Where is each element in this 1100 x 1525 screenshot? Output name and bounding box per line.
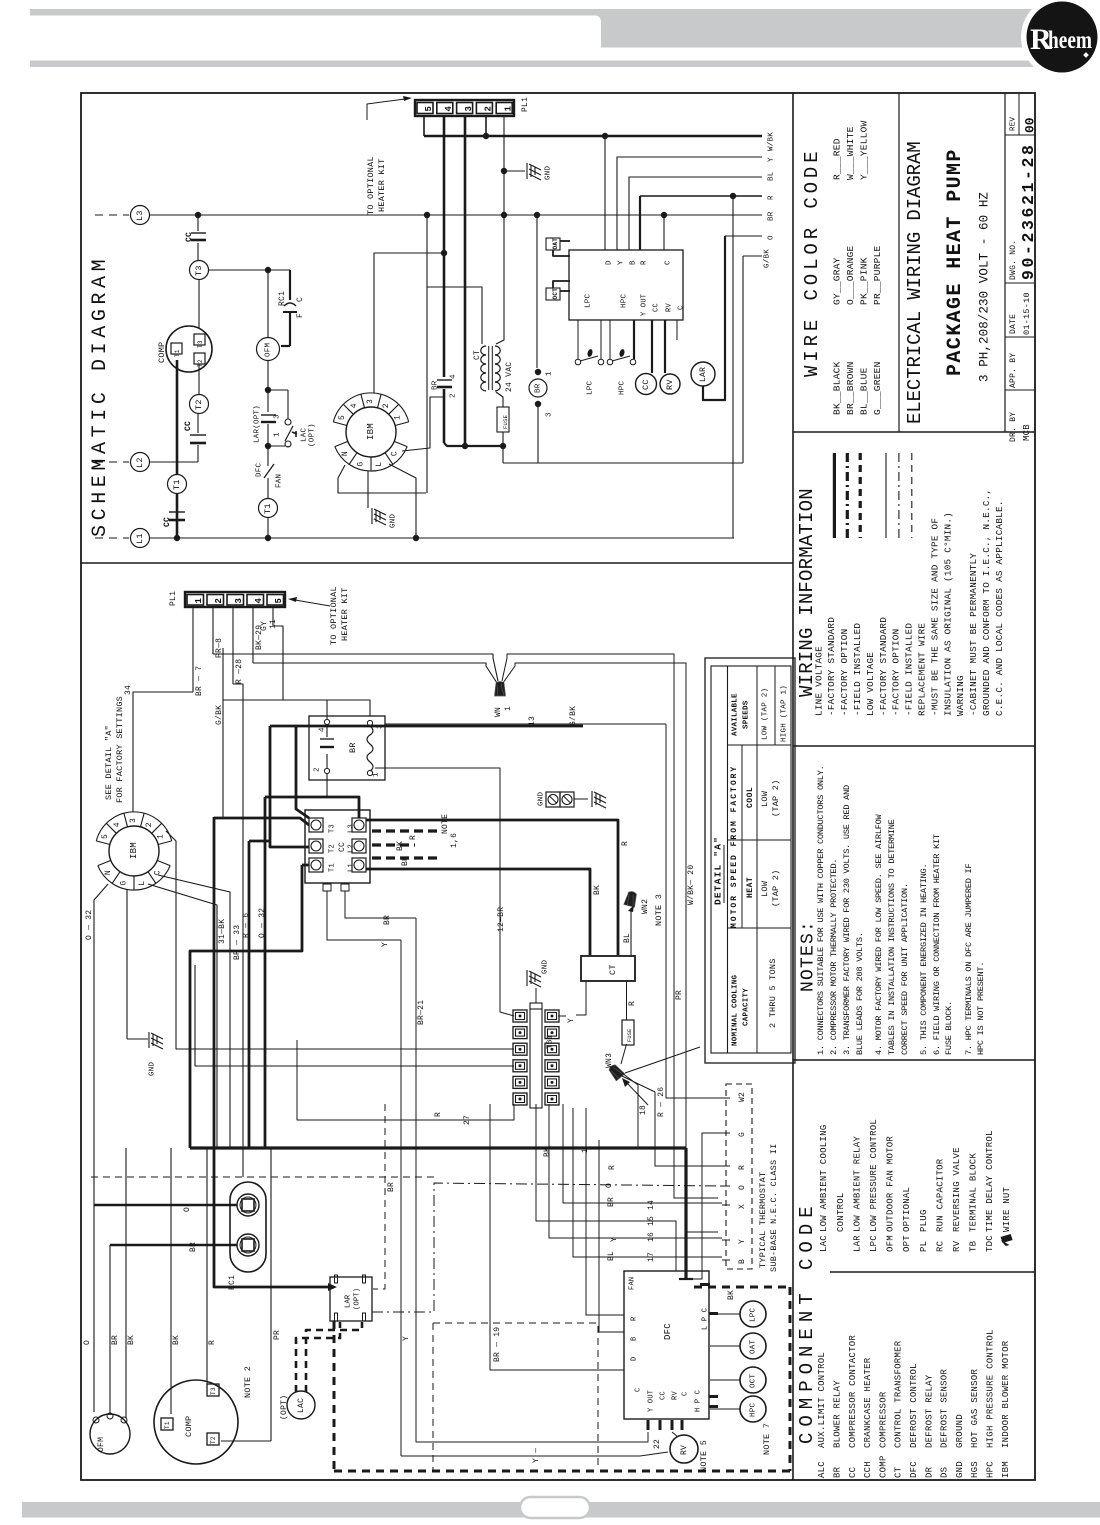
svg-text:B: B	[631, 1337, 639, 1341]
svg-text:1: 1	[394, 415, 403, 420]
svg-text:BR: BR	[383, 915, 392, 925]
svg-text:OAT: OAT	[750, 1339, 758, 1354]
svg-text:2: 2	[145, 822, 154, 827]
svg-text:R: R	[621, 841, 630, 846]
compressor COMP circle	[166, 326, 212, 372]
svg-text:HIGH (TAP 1): HIGH (TAP 1)	[781, 685, 789, 742]
defrost control DFC lower	[624, 1271, 709, 1419]
svg-text:BR: BR	[768, 211, 776, 221]
svg-text:-FACTORY STANDARD: -FACTORY STANDARD	[826, 617, 837, 716]
svg-text:HPC: HPC	[750, 1402, 758, 1417]
svg-text:R: R	[208, 1340, 217, 1345]
svg-text:IBM: IBM	[129, 842, 139, 859]
svg-text:3: 3	[464, 106, 474, 112]
svg-text:BR__BROWN: BR__BROWN	[845, 361, 856, 415]
svg-text:DEFROST RELAY: DEFROST RELAY	[924, 1374, 934, 1448]
svg-text:14: 14	[647, 1200, 656, 1210]
wire Y from CT to TB1	[576, 981, 586, 1015]
svg-text:Y: Y	[381, 942, 390, 947]
svg-text:LAC: LAC	[301, 427, 309, 442]
svg-text:C: C	[391, 451, 400, 456]
svg-text:TB1: TB1	[547, 1034, 555, 1049]
svg-text:FOR FACTORY SETTINGS: FOR FACTORY SETTINGS	[115, 696, 125, 803]
svg-text:WIRE NUT: WIRE NUT	[1002, 1186, 1012, 1232]
svg-text:22: 22	[653, 1439, 662, 1449]
wire IBM G to ground lower	[126, 890, 128, 1039]
svg-text:CONTROL: CONTROL	[836, 1192, 846, 1232]
wire R-27	[297, 1040, 514, 1120]
svg-text:RV: RV	[665, 379, 675, 390]
reversing valve RV lower	[670, 1435, 698, 1463]
svg-text:T1: T1	[263, 503, 273, 514]
svg-text:G/BK: G/BK	[764, 249, 772, 268]
svg-text:4: 4	[350, 403, 359, 408]
Rheem logo circle	[1027, 2, 1098, 73]
thermostat wire BR 14 to X	[563, 1104, 722, 1203]
svg-text:BR — 19: BR — 19	[493, 1327, 502, 1362]
wire L1 rail	[150, 537, 734, 539]
svg-text:R — 6: R — 6	[242, 913, 251, 938]
arrow to PL1 lower	[295, 600, 330, 606]
svg-text:Y —: Y —	[532, 1448, 541, 1463]
svg-text:LPC: LPC	[587, 380, 595, 395]
switch HPC schematic	[609, 320, 611, 359]
ground symbol IBM lower	[149, 1032, 163, 1049]
drawing sheet border	[81, 93, 1035, 1480]
svg-text:BR — 7: BR — 7	[195, 666, 204, 696]
wire 13 G/BK from BR coil	[385, 723, 666, 725]
svg-text:-FIELD INSTALLED: -FIELD INSTALLED	[852, 623, 863, 716]
svg-text:BR: BR	[348, 742, 358, 753]
sensor OCT	[546, 288, 560, 300]
contactor coil CC circle schematic	[651, 320, 653, 373]
svg-text:T3: T3	[194, 265, 204, 276]
wire to TB1 row4	[195, 965, 514, 1066]
svg-text:DEFROST SENSOR: DEFROST SENSOR	[940, 1369, 950, 1448]
divider: right column	[792, 93, 794, 1480]
svg-text:GND: GND	[390, 513, 398, 528]
svg-text:INSULATION AS ORIGINAL (105 C°: INSULATION AS ORIGINAL (105 C°MIN.)	[942, 512, 953, 716]
svg-text:T3: T3	[210, 1387, 217, 1395]
svg-text:C: C	[296, 297, 305, 302]
svg-text:FUSE: FUSE	[502, 414, 509, 429]
wire IBM L 31-BK	[148, 884, 217, 1148]
wire BR-7 from PL1-1	[192, 607, 194, 692]
svg-text:GY: GY	[260, 621, 269, 631]
svg-text:RV: RV	[680, 1445, 689, 1455]
LAC circle lower	[287, 1391, 315, 1419]
svg-text:LPC: LPC	[585, 293, 593, 308]
svg-text:DWG. NO.: DWG. NO.	[1009, 240, 1018, 280]
svg-text:BK: BK	[727, 1290, 736, 1300]
terminal L1	[131, 529, 150, 548]
svg-text:RUN CAPACITOR: RUN CAPACITOR	[935, 1158, 945, 1232]
svg-text:FUSE BLOCK.: FUSE BLOCK.	[944, 1001, 954, 1055]
svg-text:11: 11	[269, 619, 278, 629]
svg-text:INDOOR BLOWER MOTOR: INDOOR BLOWER MOTOR	[1001, 1340, 1011, 1448]
svg-text:MOTOR SPEED FROM FACTORY: MOTOR SPEED FROM FACTORY	[730, 765, 739, 928]
svg-text:T2: T2	[194, 399, 204, 410]
wire R schematic	[639, 196, 641, 250]
svg-text:BR: BR	[387, 1182, 396, 1192]
svg-text:DFC: DFC	[663, 1323, 673, 1340]
svg-text:TO OPTIONAL: TO OPTIONAL	[366, 156, 376, 215]
wire IBM C BR-33	[158, 875, 230, 1148]
contactor contact CC phase3	[197, 215, 199, 231]
svg-text:Y: Y	[567, 1018, 576, 1023]
svg-text:COMP: COMP	[184, 1416, 194, 1437]
svg-text:5: 5	[424, 106, 434, 112]
svg-text:HGS: HGS	[970, 1461, 980, 1478]
contactor CC lower box	[305, 810, 370, 883]
svg-text:-CABINET MUST BE PERMANENTLY: -CABINET MUST BE PERMANENTLY	[968, 553, 979, 716]
svg-text:27: 27	[463, 1115, 472, 1125]
thermostat wire R	[655, 1092, 722, 1166]
svg-text:T1: T1	[329, 863, 337, 872]
svg-text:BR: BR	[189, 1242, 198, 1252]
wire PL1-1 branch	[503, 115, 505, 215]
wire IBM petal G to ground	[367, 471, 369, 508]
svg-text:G: G	[738, 1132, 747, 1137]
svg-text:R: R	[641, 260, 649, 265]
svg-text:NOMINAL COOLING: NOMINAL COOLING	[732, 974, 740, 1046]
wire G/BK schematic	[743, 255, 762, 257]
svg-text:Y: Y	[738, 1239, 747, 1244]
thick wire to LAR	[214, 1148, 330, 1287]
terminal T1 fan circle	[259, 499, 278, 518]
svg-text:FAN: FAN	[629, 1277, 637, 1290]
svg-text:T1: T1	[174, 349, 181, 357]
svg-text:3 PH,208/230 VOLT - 60 HZ: 3 PH,208/230 VOLT - 60 HZ	[978, 192, 992, 382]
svg-text:PLUG: PLUG	[919, 1209, 929, 1232]
pressure switch circles	[740, 1301, 766, 1327]
svg-text:BK: BK	[401, 856, 410, 866]
svg-text:L2: L2	[135, 457, 145, 468]
svg-text:HPC: HPC	[621, 293, 629, 308]
svg-text:T2: T2	[329, 844, 337, 853]
connector PL1 schematic	[415, 100, 514, 116]
svg-text:HOT GAS SENSOR: HOT GAS SENSOR	[970, 1369, 980, 1448]
svg-text:R: R	[738, 1165, 747, 1170]
svg-text:(TAP 2): (TAP 2)	[771, 780, 781, 817]
svg-text:1: 1	[504, 706, 513, 711]
svg-text:1. CONNECTORS SUITABLE FOR USE: 1. CONNECTORS SUITABLE FOR USE WITH COPP…	[816, 765, 826, 1055]
svg-text:BK: BK	[127, 1335, 136, 1345]
heavy dashed field wires NOTE 1,6	[372, 829, 437, 832]
wire 15 to DFC	[536, 1104, 676, 1271]
svg-text:31—BK: 31—BK	[218, 919, 227, 944]
svg-text:C: C	[682, 1392, 690, 1396]
svg-text:4: 4	[444, 106, 454, 112]
wire Y to RV area	[401, 1452, 668, 1456]
title block strip cells	[1005, 134, 1035, 136]
svg-text:C: C	[154, 870, 163, 875]
svg-text:RC1: RC1	[278, 291, 287, 306]
svg-text:SPEEDS: SPEEDS	[743, 700, 751, 729]
svg-text:HEATER KIT: HEATER KIT	[377, 158, 387, 212]
svg-text:BR: BR	[111, 1335, 120, 1345]
svg-text:L2: L2	[348, 844, 356, 853]
wire W/BK thick	[423, 115, 425, 136]
svg-text:RV: RV	[672, 1391, 680, 1400]
svg-text:PL1: PL1	[521, 97, 530, 112]
wires PR and W/BK verticals	[502, 654, 718, 1198]
svg-text:CONTROL TRANSFORMER: CONTROL TRANSFORMER	[894, 1340, 904, 1448]
svg-text:WIRE COLOR CODE: WIRE COLOR CODE	[801, 147, 823, 377]
svg-text:BL: BL	[623, 933, 632, 943]
thermostat wire G	[693, 1133, 722, 1279]
wire 34 to IBM	[133, 692, 193, 793]
svg-text:REPLACEMENT WIRE: REPLACEMENT WIRE	[917, 623, 928, 716]
svg-text:CRANKCASE HEATER: CRANKCASE HEATER	[863, 1357, 873, 1448]
svg-text:N: N	[341, 451, 350, 456]
title block: wire color code / electrical divider	[898, 93, 900, 432]
svg-text:HEATER KIT: HEATER KIT	[340, 587, 350, 641]
svg-text:LOW AMBIENT COOLING: LOW AMBIENT COOLING	[819, 1125, 829, 1232]
svg-text:Y OUT: Y OUT	[648, 1390, 656, 1412]
svg-text:G___GREEN: G___GREEN	[872, 361, 883, 415]
wire nut WN3	[607, 1063, 625, 1081]
wire L2 lead	[150, 461, 198, 463]
svg-text:PR__PURPLE: PR__PURPLE	[872, 245, 883, 305]
CC coil stubs	[323, 884, 331, 891]
svg-text:BLOWER RELAY: BLOWER RELAY	[833, 1380, 843, 1448]
svg-text:FUSE: FUSE	[627, 1029, 633, 1042]
wire COMP T2 branch	[198, 364, 200, 394]
svg-text:L1: L1	[135, 533, 145, 544]
wire CT secondary to fuse	[496, 215, 504, 344]
svg-text:TIME DELAY CONTROL: TIME DELAY CONTROL	[985, 1130, 995, 1232]
svg-text:(TAP 2): (TAP 2)	[771, 870, 781, 907]
svg-text:DFC: DFC	[256, 462, 264, 477]
fuse lower	[622, 1020, 634, 1045]
svg-text:OCT: OCT	[552, 288, 559, 300]
svg-text:SUB-BASE N.E.C. CLASS II: SUB-BASE N.E.C. CLASS II	[769, 1144, 779, 1272]
svg-text:G/BK: G/BK	[569, 706, 578, 726]
wire IBM petal2 to PL1	[374, 253, 444, 393]
svg-text:LAR: LAR	[699, 367, 708, 382]
defrost contact DFC FAN	[267, 448, 269, 466]
svg-text:3. TRANSFORMER FACTORY WIRED F: 3. TRANSFORMER FACTORY WIRED FOR 230 VOL…	[842, 785, 852, 1055]
svg-text:REVERSING VALVE: REVERSING VALVE	[952, 1147, 962, 1232]
WN3 arrow	[626, 1082, 648, 1105]
svg-text:Y: Y	[768, 157, 776, 162]
svg-text:OCT: OCT	[750, 1373, 758, 1388]
svg-text:W2: W2	[738, 1092, 747, 1102]
relay BR coil wavy	[367, 726, 373, 771]
svg-text:IBM: IBM	[366, 423, 376, 440]
svg-text:LPC: LPC	[869, 1235, 879, 1252]
svg-text:BK: BK	[593, 885, 602, 895]
wire nut WN1	[495, 682, 506, 697]
svg-text:5: 5	[274, 598, 284, 604]
svg-text:18: 18	[639, 1105, 648, 1115]
wire PL1-3 thick	[464, 115, 467, 445]
svg-text:R — 26: R — 26	[657, 1087, 666, 1117]
terminal block TB1	[530, 1008, 542, 1108]
svg-text:24 VAC: 24 VAC	[505, 362, 514, 392]
svg-text:D: D	[606, 260, 614, 265]
svg-text:DR: DR	[924, 1466, 934, 1478]
svg-text:(OPT): (OPT)	[280, 1395, 289, 1420]
svg-text:T2: T2	[197, 359, 204, 367]
svg-text:12—BR: 12—BR	[497, 907, 506, 932]
svg-text:MCB: MCB	[1022, 424, 1032, 441]
svg-text:BR: BR	[607, 1197, 616, 1207]
svg-text:1: 1	[581, 1148, 590, 1153]
svg-text:2: 2	[484, 106, 494, 112]
wire WN3 to R-26	[622, 1076, 655, 1092]
page top thick gray band	[595, 16, 1038, 48]
divider: schematic / lower diagram	[81, 562, 793, 564]
wire PR-8 from PL1-2	[212, 607, 214, 654]
svg-text:PL1: PL1	[169, 591, 178, 606]
svg-text:-FACTORY OPTION: -FACTORY OPTION	[839, 629, 850, 716]
svg-text:F: F	[296, 313, 305, 318]
svg-text:2: 2	[450, 393, 458, 398]
svg-text:DATE: DATE	[1009, 314, 1018, 334]
wire PR to COMP T2	[270, 1148, 272, 1441]
svg-text:1: 1	[157, 834, 166, 839]
connector PL1 lower	[185, 592, 285, 607]
detail A outer box	[705, 658, 795, 1063]
svg-text:O — 32: O — 32	[258, 908, 267, 938]
svg-text:X: X	[738, 1204, 747, 1209]
svg-text:OFM: OFM	[97, 1437, 106, 1452]
svg-text:CC: CC	[653, 303, 661, 312]
svg-text:G: G	[357, 462, 366, 467]
page second gray bar	[30, 61, 1038, 68]
svg-text:3: 3	[274, 414, 282, 419]
dashed wire BR to LAR	[373, 1104, 385, 1289]
relay LAR schematic	[691, 362, 715, 386]
svg-text:COMPONENT CODE: COMPONENT CODE	[796, 1200, 818, 1444]
wire IBM N to OFM	[94, 884, 108, 1412]
svg-text:OFM: OFM	[265, 342, 273, 357]
svg-text:GROUNDED AND CONFORM TO I.E.C.: GROUNDED AND CONFORM TO I.E.C., N.E.C.,	[981, 489, 992, 716]
dash-dot wire O from LAR	[372, 1183, 722, 1312]
svg-text:O: O	[605, 1183, 614, 1188]
svg-text:Y: Y	[618, 260, 626, 265]
svg-text:PR: PR	[273, 1330, 282, 1340]
control transformer CT lower	[581, 956, 635, 981]
svg-text:1,6: 1,6	[450, 833, 459, 848]
svg-text:CCH: CCH	[863, 1461, 873, 1478]
thermostat dashed box	[726, 1084, 752, 1269]
blower motor IBM lower	[109, 826, 159, 876]
detail A frame	[711, 666, 791, 1053]
svg-text:CAPACITY: CAPACITY	[743, 988, 751, 1026]
svg-text:4: 4	[254, 598, 264, 604]
svg-text:PL: PL	[919, 1241, 929, 1252]
svg-text:CC: CC	[641, 379, 651, 390]
svg-text:1: 1	[194, 598, 204, 604]
svg-text:2. COMPRESSOR MOTOR THERMALLY: 2. COMPRESSOR MOTOR THERMALLY PROTECTED.	[829, 859, 839, 1055]
divider: title block bottom	[793, 431, 1035, 433]
svg-text:COMP: COMP	[878, 1455, 888, 1478]
svg-text:GY__GRAY: GY__GRAY	[831, 257, 842, 305]
thermostat wire Y 16	[549, 1104, 722, 1238]
title block: DR strip divider	[1004, 93, 1006, 432]
svg-text:O: O	[768, 235, 776, 240]
svg-text:LOW (TAP 2): LOW (TAP 2)	[762, 688, 770, 740]
bottom gray bar with pill	[22, 1502, 1100, 1518]
svg-text:BR — 33: BR — 33	[233, 925, 242, 960]
wires bundle to COMP	[170, 1148, 172, 1414]
svg-text:W/BK— 20: W/BK— 20	[687, 865, 696, 905]
wire L3 rail	[150, 214, 762, 216]
svg-text:ELECTRICAL WIRING DIAGRAM: ELECTRICAL WIRING DIAGRAM	[904, 141, 926, 424]
contactor contact CC phase2	[190, 434, 206, 436]
svg-text:BK__BLACK: BK__BLACK	[831, 361, 842, 415]
svg-text:D: D	[631, 1357, 639, 1361]
wire to DFC R pin	[586, 1108, 624, 1315]
thick wire bundle CC	[213, 817, 216, 1148]
svg-text:NOTE 3: NOTE 3	[654, 894, 664, 926]
wires to RC1	[94, 1204, 237, 1207]
compressor COMP lower	[154, 1380, 238, 1464]
svg-text:LAC: LAC	[297, 1398, 306, 1413]
svg-text:5: 5	[101, 834, 110, 839]
COMP terminal boxes	[171, 343, 182, 354]
svg-text:H P C: H P C	[695, 1390, 703, 1412]
svg-text:2: 2	[314, 767, 322, 772]
wires BR box stubs	[326, 700, 328, 719]
svg-text:1: 1	[274, 432, 282, 437]
svg-text:3: 3	[546, 412, 554, 417]
wire C pin down	[676, 320, 678, 340]
svg-text:T1: T1	[172, 479, 182, 490]
svg-text:R: R	[434, 1112, 443, 1117]
wire BK-29 from PL1-4	[252, 607, 254, 663]
svg-text:RC: RC	[935, 1240, 945, 1252]
svg-text:FAN: FAN	[276, 474, 284, 488]
svg-text:COMPRESSOR: COMPRESSOR	[878, 1391, 888, 1448]
wire BL to WN2	[630, 908, 632, 956]
svg-text:C.E.C. AND LOCAL CODES AS APPL: C.E.C. AND LOCAL CODES AS APPLICABLE.	[994, 500, 1005, 716]
svg-text:DR. BY: DR. BY	[1009, 412, 1018, 442]
GND screw terminal block	[546, 792, 560, 807]
svg-text:5. THIS COMPONENT ENERGIZED IN: 5. THIS COMPONENT ENERGIZED IN HEATING.	[919, 864, 929, 1055]
relay contact LAR (OPT)	[267, 390, 269, 412]
svg-text:T2: T2	[210, 1436, 217, 1444]
relay LAR lower box	[330, 1277, 372, 1321]
svg-text:NOTE: NOTE	[441, 814, 450, 834]
svg-text:(OPT): (OPT)	[354, 1288, 362, 1310]
terminal T3 circle	[190, 261, 209, 280]
svg-text:CC: CC	[185, 232, 194, 242]
thick BK feed to CT	[366, 869, 590, 955]
svg-text:NOTE 2: NOTE 2	[243, 1366, 253, 1398]
svg-text:heem: heem	[1048, 27, 1092, 54]
svg-text:TO OPTIONAL: TO OPTIONAL	[329, 586, 339, 645]
wire R from CT to fuse	[626, 981, 628, 1020]
svg-text:O: O	[738, 1185, 747, 1190]
svg-text:5: 5	[338, 415, 347, 420]
svg-text:LAR(OPT): LAR(OPT)	[254, 405, 262, 443]
svg-text:COMP: COMP	[157, 342, 167, 363]
svg-text:00: 00	[1023, 117, 1038, 133]
svg-text:CC: CC	[660, 1391, 668, 1400]
svg-text:BR: BR	[432, 380, 440, 390]
svg-text:17: 17	[647, 1252, 656, 1262]
svg-text:3: 3	[129, 818, 138, 823]
wire G/BK to thermostat W2	[666, 724, 722, 1098]
svg-text:DFC: DFC	[909, 1461, 919, 1478]
svg-text:COMPRESSOR CONTACTOR: COMPRESSOR CONTACTOR	[848, 1335, 858, 1448]
svg-text:TABLES IN INSTALLATION INSTRUC: TABLES IN INSTALLATION INSTRUCTIONS TO D…	[887, 819, 897, 1055]
svg-text:7. HPC TERMINALS ON DFC ARE JU: 7. HPC TERMINALS ON DFC ARE JUMPERED IF	[964, 864, 974, 1055]
